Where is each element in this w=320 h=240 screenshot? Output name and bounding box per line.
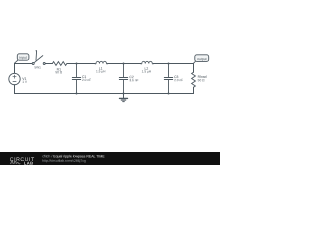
CircuitLab logo waveform [10,161,20,164]
switch SW1 throw dot [36,50,37,51]
svg-text:3.6 nF: 3.6 nF [129,78,138,82]
wire V1 bottom stub [14,85,16,94]
svg-text:LAB: LAB [24,161,34,165]
svg-text:SW1: SW1 [34,65,41,69]
wire V1 top stub [14,64,16,74]
capacitor C3 [164,64,172,94]
node dot bottom C2/ground [123,93,125,95]
svg-text:output: output [197,57,206,61]
resistor R1 [52,62,67,66]
wire R1 to L1 [67,63,95,65]
node dot bottom C3 [168,93,170,95]
input flag [17,54,29,60]
svg-text:http://circuitlab.com/c286j7cg: http://circuitlab.com/c286j7cg [42,159,86,163]
svg-text:2.0 nF: 2.0 nF [82,78,91,82]
wire input corner to switch [15,63,33,65]
node dot bottom C1 [76,93,78,95]
inductor L1 [95,61,108,64]
node dot top C2 [123,63,125,65]
svg-text:input: input [19,56,26,60]
node dot top C3 [168,63,170,65]
wire switch to R1 [45,63,52,65]
switch SW1 [32,63,34,65]
node dot top C1 [76,63,78,65]
svg-text:1.5 μH: 1.5 μH [142,69,152,73]
footer bar [0,152,220,165]
capacitor C2 [119,64,127,94]
wire Rload to bottom rail [193,87,195,93]
bottom rail wire [15,93,194,95]
svg-text:50 Ω: 50 Ω [198,78,205,82]
voltage source V1 [9,73,20,84]
output flag [195,55,209,62]
svg-text:2.0 nF: 2.0 nF [174,78,183,82]
resistor Rload (vertical) [192,72,196,87]
svg-text:1 V: 1 V [22,80,28,84]
svg-text:50 Ω: 50 Ω [55,70,62,74]
svg-text:1.5 μH: 1.5 μH [96,69,106,73]
inductor L2 [141,61,154,64]
ground [123,94,125,99]
capacitor C1 [72,64,80,94]
wire L2 to output corner [153,64,193,73]
wire L1 to L2 [108,63,141,65]
